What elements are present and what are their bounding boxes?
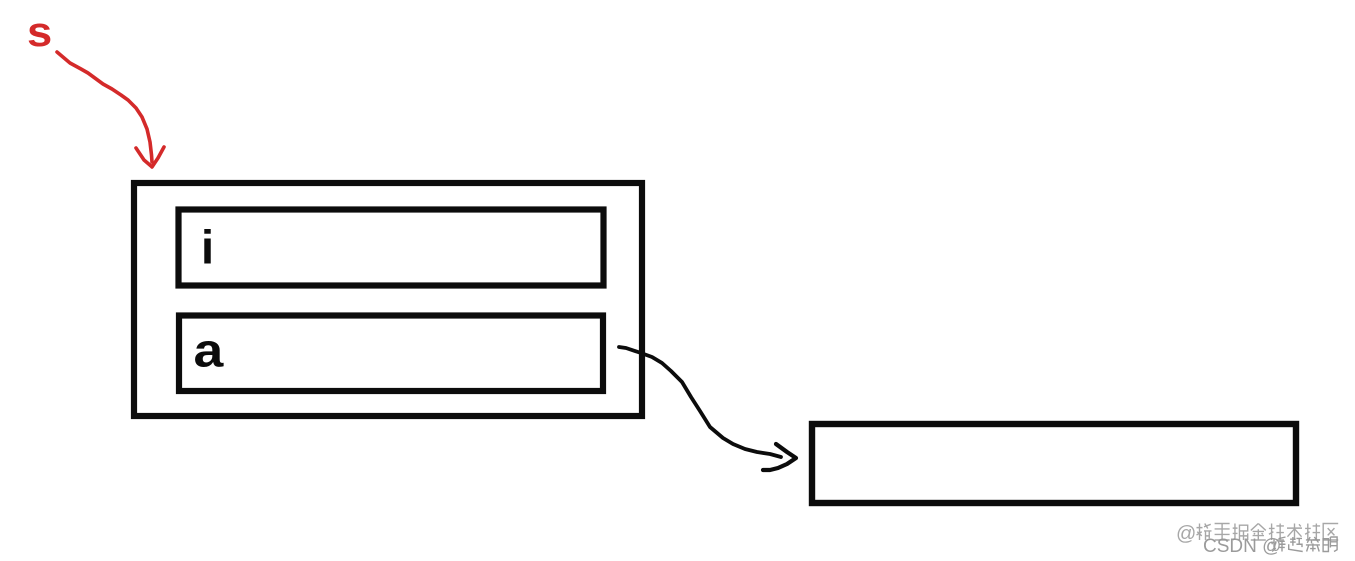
svg-text:CSDN @: CSDN @ [1203, 536, 1281, 557]
watermark line 1: @稀土掘金技术社区 [1176, 523, 1338, 545]
label a [194, 324, 225, 377]
outer box (object s) [134, 183, 642, 416]
field box a [179, 316, 603, 392]
red arrow (from s to outer box) [57, 52, 164, 167]
black arrow (from field a to array box) [619, 347, 796, 470]
svg-text:@: @ [1176, 523, 1196, 545]
label s [27, 9, 52, 56]
watermark line 2: CSDN @烽起黎明 [1203, 536, 1337, 557]
svg-text:i: i [201, 221, 214, 274]
svg-text:a: a [194, 324, 225, 377]
svg-text:s: s [27, 9, 52, 56]
field box i [179, 210, 604, 286]
label i [201, 221, 214, 274]
array box [812, 424, 1296, 503]
